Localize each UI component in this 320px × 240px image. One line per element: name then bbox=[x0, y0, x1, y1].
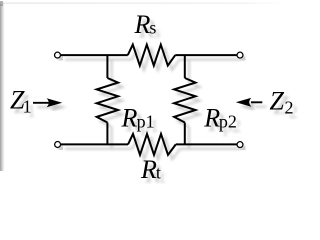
wire bottom-left (port1 lower to Rt) bbox=[61, 143, 128, 145]
wire Rp1 top lead bbox=[106, 55, 108, 78]
arrow Z1 (pointing right) bbox=[33, 98, 62, 107]
wire top-right (Rs to port2 upper) bbox=[175, 54, 237, 56]
resistor Rp2 (right shunt) bbox=[174, 78, 195, 123]
wire top-left (port1 upper to Rs) bbox=[61, 54, 128, 56]
resistor Rp1 (left shunt) bbox=[97, 78, 118, 123]
page edge shading (top border) bbox=[0, 3, 286, 4]
page edge corner spot bbox=[0, 1, 3, 6]
terminal port1 upper bbox=[55, 52, 61, 58]
arrow Z2 (pointing left) bbox=[236, 98, 262, 107]
page edge shading (left border) bbox=[0, 2, 5, 171]
resistor Rt (series, bottom) bbox=[128, 134, 176, 155]
wire Rp2 bottom lead bbox=[184, 123, 186, 145]
terminal port1 lower bbox=[55, 142, 61, 148]
terminal port2 lower bbox=[237, 142, 243, 148]
wire Rp1 bottom lead bbox=[106, 123, 108, 145]
resistor Rs (series, top) bbox=[128, 45, 176, 66]
wire bottom-right (Rt to port2 lower) bbox=[176, 143, 237, 145]
terminal port2 upper bbox=[237, 52, 243, 58]
wire Rp2 top lead bbox=[184, 55, 186, 78]
